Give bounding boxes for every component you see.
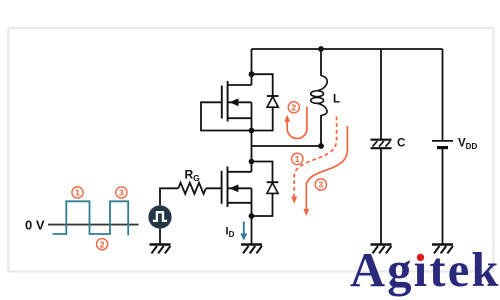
resistor RG <box>178 183 206 194</box>
node L bottom <box>318 143 324 149</box>
marker 3 on waveform <box>116 187 127 198</box>
logo Agitek <box>350 244 500 297</box>
wire pulse generator to RG <box>160 188 178 205</box>
svg-text:Agıtek: Agıtek <box>350 244 500 297</box>
wire Q2 drain up <box>251 162 253 172</box>
wire Q1 source down <box>251 102 253 130</box>
wire midpoint to L <box>252 145 322 147</box>
wire Q2 source down <box>251 188 253 216</box>
waveform gate pulse trace <box>53 201 129 235</box>
current arrow ID <box>240 222 247 241</box>
marker 1 path label <box>292 153 303 164</box>
svg-text:3: 3 <box>119 188 124 198</box>
svg-text:0 V: 0 V <box>25 218 45 233</box>
mosfet Q1 <box>222 81 252 122</box>
body diode D2 <box>252 162 279 217</box>
ground (C) <box>371 245 392 254</box>
mosfet Q2 <box>222 167 252 208</box>
wire rail to C <box>380 49 382 140</box>
ground (pulse generator) <box>150 245 171 254</box>
wire switch node <box>251 131 253 162</box>
current path 3 <box>303 126 347 216</box>
waveform 0V axis <box>48 224 139 226</box>
ground (VDD) <box>432 245 453 254</box>
node D2 anode junction <box>249 213 255 219</box>
wire Q1 drain to top rail <box>251 49 253 85</box>
wire Q2 source to ground <box>251 216 253 245</box>
battery VDD <box>432 141 453 148</box>
node L top <box>318 46 324 52</box>
wire C to ground <box>380 148 382 244</box>
current loop 2 <box>284 107 307 139</box>
pulse generator VG <box>148 205 171 228</box>
svg-text:1: 1 <box>295 154 300 164</box>
svg-text:2: 2 <box>291 102 296 112</box>
svg-text:L: L <box>333 94 340 106</box>
svg-text:C: C <box>397 138 405 150</box>
wire pulse generator to ground <box>159 229 161 245</box>
svg-text:1: 1 <box>75 188 80 198</box>
inductor L <box>311 49 328 146</box>
wire RG to Q2 gate <box>206 187 222 189</box>
marker 3 path label <box>315 179 326 190</box>
node D2 cathode junction <box>249 159 255 165</box>
marker 1 on waveform <box>72 187 83 198</box>
capacitor C <box>371 140 392 149</box>
node D1 anode junction <box>249 128 255 134</box>
wire Q1 gate-source short <box>201 102 252 130</box>
node D1 cathode junction <box>249 71 255 77</box>
marker 2 loop label <box>288 102 299 113</box>
top rail wire <box>252 48 443 50</box>
svg-text:3: 3 <box>318 180 323 190</box>
svg-text:2: 2 <box>100 239 105 249</box>
current path 1 dashed <box>291 117 336 204</box>
wire VDD to ground <box>442 148 444 245</box>
ground (Q2 source) <box>241 245 262 254</box>
wire rail to VDD <box>442 49 444 141</box>
marker 2 on waveform <box>97 239 108 250</box>
body diode D1 <box>252 74 279 130</box>
